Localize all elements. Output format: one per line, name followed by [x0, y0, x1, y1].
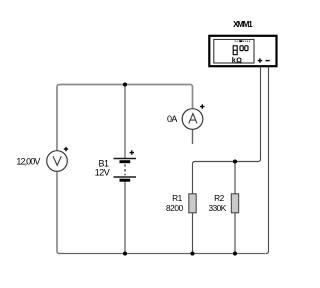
wire ammeter bottom lead [192, 129, 194, 144]
wire multimeter plus lead to mid rail to R1 top [193, 67, 261, 194]
resistor R1 body [189, 194, 196, 213]
voltmeter V glyph [53, 156, 61, 165]
junction bottom battery node [123, 251, 127, 255]
wire R1 bottom [192, 213, 194, 254]
wire battery bottom [124, 181, 126, 254]
svg-text:12V: 12V [95, 167, 110, 177]
junction bottom R1 node [190, 251, 194, 255]
battery B1 bottom thick plate [120, 179, 131, 182]
voltmeter circle [47, 151, 68, 172]
multimeter plus terminal label [258, 58, 262, 62]
battery B1 bottom long plate [114, 176, 137, 178]
wire R2 bottom [234, 213, 236, 254]
multimeter display window [214, 39, 254, 63]
wire multimeter minus lead down right side with bottom-right corner [266, 67, 269, 254]
svg-text:R1: R1 [172, 193, 183, 203]
multimeter XMM1 body [209, 36, 276, 66]
junction mid R2 node [233, 159, 237, 163]
ammeter A glyph [189, 114, 197, 124]
ammeter plus sign [200, 104, 204, 108]
battery B1 top thick plate [120, 160, 131, 163]
wire bottom rail [59, 253, 266, 255]
svg-text:8200: 8200 [166, 203, 184, 213]
svg-text:12,00V: 12,00V [16, 156, 40, 166]
resistor R2 body [231, 194, 238, 213]
multimeter display digit 8 [233, 46, 237, 55]
multimeter minus terminal label [266, 60, 270, 62]
battery B1 top long plate [114, 158, 137, 160]
junction bottom R2 node [233, 251, 237, 255]
ammeter circle [182, 109, 203, 130]
wire battery top [124, 85, 126, 159]
svg-text:kΩ: kΩ [232, 55, 243, 64]
voltmeter plus sign [64, 147, 68, 151]
battery B1 plus sign [130, 150, 134, 154]
junction top battery node [123, 82, 127, 86]
wire top rail with left drop and ammeter drop [57, 85, 193, 151]
svg-text:XMM1: XMM1 [233, 20, 253, 29]
battery B1 dashed middle [124, 164, 126, 175]
multimeter display tick row [235, 40, 250, 42]
svg-text:R2: R2 [214, 193, 225, 203]
wire R2 top [234, 162, 236, 194]
svg-text:330K: 330K [209, 203, 227, 213]
wire left vertical below voltmeter with bottom-left corner [57, 171, 60, 254]
svg-text:0A: 0A [167, 114, 177, 124]
multimeter display digits 00 [240, 46, 248, 51]
